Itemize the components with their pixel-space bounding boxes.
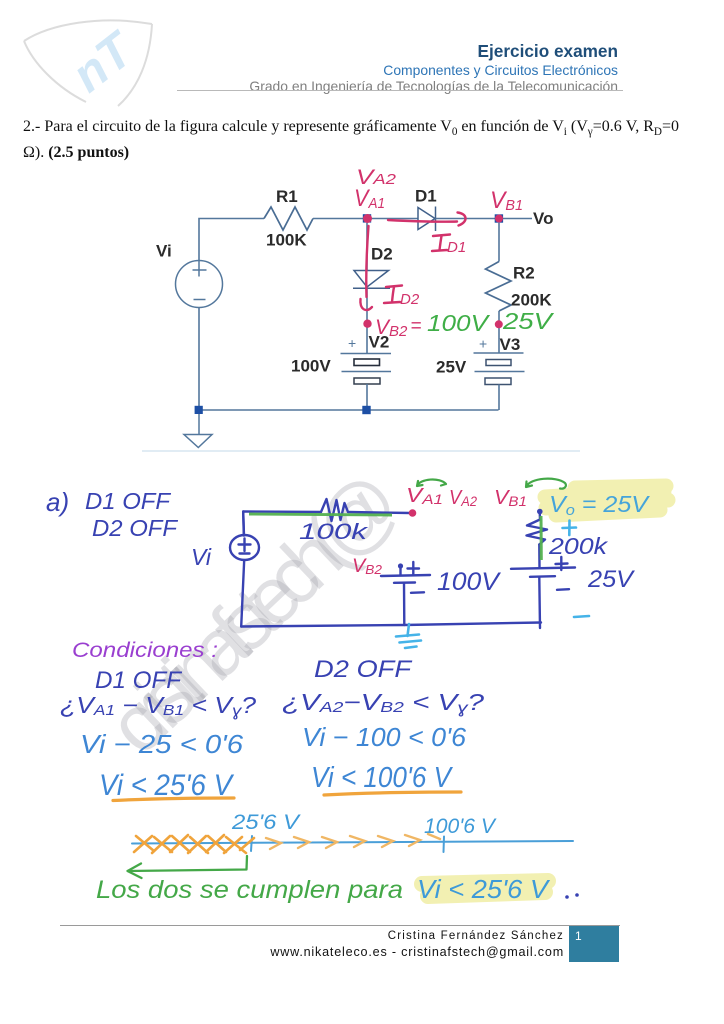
handwritten ground (light blue) <box>396 624 421 648</box>
svg-text:D2: D2 <box>400 291 420 308</box>
svg-text:25V: 25V <box>502 308 555 334</box>
wire R2 to battery V3 <box>498 311 500 353</box>
svg-text:VB2: VB2 <box>352 556 383 577</box>
node R2-V3 dot <box>495 320 503 328</box>
handwritten wire 200k to battery 25V <box>538 545 541 568</box>
svg-text:D2 OFF: D2 OFF <box>314 656 413 683</box>
orange underline right <box>324 792 461 795</box>
svg-text:VA1: VA1 <box>406 485 443 507</box>
svg-text:D1: D1 <box>415 187 437 206</box>
handwritten wire left vertical <box>241 512 244 627</box>
svg-text:D2: D2 <box>371 245 393 264</box>
yellow highlight Vi<25'6V <box>422 881 548 896</box>
svg-text:Vi: Vi <box>191 544 212 570</box>
svg-text:D1 OFF: D1 OFF <box>95 667 182 694</box>
svg-text:100V: 100V <box>291 357 331 376</box>
svg-text:Los dos se cumplen para: Los dos se cumplen para <box>96 876 403 904</box>
green arrow left <box>128 856 248 878</box>
green marker over 200k <box>540 516 543 560</box>
node B junction <box>495 214 503 222</box>
svg-text:Condiciones :: Condiciones : <box>72 639 218 662</box>
minus sign bottom right (light blue) <box>574 616 589 617</box>
trailing dots <box>565 895 569 899</box>
wire node A to D2 <box>366 223 368 271</box>
svg-text:D1 OFF: D1 OFF <box>85 488 172 514</box>
wire node B to Vo <box>503 218 532 220</box>
svg-text:100k: 100k <box>299 519 368 544</box>
node B dot <box>495 215 503 223</box>
yellow highlight Vo=25V <box>545 486 668 515</box>
bottom wire net <box>199 409 499 411</box>
wire D1 to node B <box>436 218 496 220</box>
wire D2 to battery V2 <box>366 288 368 353</box>
svg-text:¿VA1 − VB1 < Vɣ?: ¿VA1 − VB1 < Vɣ? <box>60 692 256 720</box>
node A junction <box>363 214 371 222</box>
svg-text:Vi: Vi <box>156 242 172 261</box>
svg-text:VA1: VA1 <box>354 185 385 212</box>
green marker over top wire <box>249 514 392 515</box>
current ID2 arrow <box>360 226 372 310</box>
logo watermark top-left <box>0 0 200 130</box>
resistor R1 <box>264 207 313 230</box>
handwritten battery 100V <box>381 562 430 625</box>
handwritten source Vi circle <box>230 535 259 560</box>
voltage source Vi <box>176 261 223 308</box>
svg-text:VB2=: VB2= <box>375 316 421 340</box>
orange hatching sparse <box>266 834 440 849</box>
svg-text:100V: 100V <box>427 310 491 336</box>
label ID1 stylized I <box>432 235 450 252</box>
svg-text:+: + <box>479 336 487 352</box>
label ID2 stylized I <box>384 286 402 304</box>
handwritten battery 25V <box>511 557 575 590</box>
junction bottom center <box>362 406 370 414</box>
handwritten resistor 200k <box>527 520 548 545</box>
svg-text:100V: 100V <box>437 568 501 596</box>
svg-text:100K: 100K <box>266 231 307 250</box>
svg-text:+: + <box>348 335 356 351</box>
wire Vi top to R1 <box>199 219 264 261</box>
green arc over VA1 <box>417 479 446 486</box>
diode D1 <box>418 207 436 232</box>
svg-text:25V: 25V <box>587 566 635 593</box>
handwritten resistor 100k <box>321 499 348 521</box>
handwritten wire source to resistor <box>243 512 321 536</box>
orange underline left <box>113 798 234 801</box>
svg-text:Vi < 25'6 V: Vi < 25'6 V <box>417 874 551 904</box>
handwritten wire bottom <box>241 623 541 627</box>
svg-text:R2: R2 <box>513 264 535 283</box>
junction bottom left <box>195 406 203 414</box>
node A dot <box>363 214 372 223</box>
svg-text:Vi < 100'6 V: Vi < 100'6 V <box>311 762 453 794</box>
svg-text:a): a) <box>46 487 69 517</box>
svg-text:D2 OFF: D2 OFF <box>92 515 179 541</box>
wire R1 to node A <box>313 218 363 220</box>
node VB2 dot <box>363 320 371 328</box>
handwritten annotations on printed circuit <box>354 166 523 340</box>
svg-text:¿VA2−VB2 < Vɣ?: ¿VA2−VB2 < Vɣ? <box>282 689 484 717</box>
problem statement <box>23 117 713 162</box>
svg-text:V3: V3 <box>500 335 521 354</box>
svg-text:R1: R1 <box>276 187 298 206</box>
handwritten wire right vertical lower <box>538 578 541 629</box>
battery V2 <box>341 354 392 407</box>
svg-text:VB1: VB1 <box>494 487 527 509</box>
footer <box>60 925 620 926</box>
handwritten node dot VA <box>409 509 417 517</box>
wire node B to R2 <box>498 223 500 262</box>
orange hatching dense <box>134 835 254 853</box>
wire Vi bottom to ground node <box>198 308 200 407</box>
svg-text:25V: 25V <box>436 358 467 377</box>
handwritten wire node to resistor 200k <box>537 509 543 515</box>
green arc over VB1-Vo <box>526 479 566 489</box>
ground <box>184 414 212 448</box>
resistor R2 <box>486 262 512 312</box>
plus sign near 200k (light blue) <box>563 521 577 536</box>
svg-text:Vi − 100 < 0'6: Vi − 100 < 0'6 <box>302 722 467 752</box>
current ID1 arrow <box>388 213 466 226</box>
header titles <box>478 41 618 62</box>
svg-text:200k: 200k <box>548 533 609 559</box>
number line <box>132 836 573 852</box>
handwritten wire resistor to node VA <box>348 512 410 513</box>
battery V3 <box>474 353 525 410</box>
svg-text:Vi − 25 < 0'6: Vi − 25 < 0'6 <box>80 729 244 759</box>
svg-text:Vo: Vo <box>533 209 553 228</box>
svg-text:25'6 V: 25'6 V <box>231 811 301 834</box>
svg-text:100'6 V: 100'6 V <box>424 815 497 838</box>
svg-text:D1: D1 <box>447 239 466 256</box>
svg-text:Vo = 25V: Vo = 25V <box>549 491 651 519</box>
svg-text:VB1: VB1 <box>490 187 523 214</box>
svg-text:VA2: VA2 <box>449 487 477 509</box>
svg-text:200K: 200K <box>511 291 552 310</box>
diode D2 <box>353 271 390 289</box>
wire node A to D1 <box>371 218 418 220</box>
